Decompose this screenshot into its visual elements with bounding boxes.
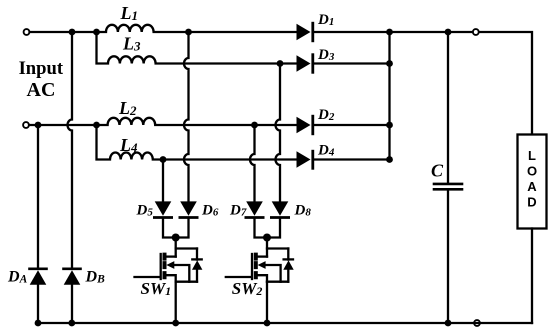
- svg-text:D7: D7: [229, 203, 247, 219]
- svg-text:D8: D8: [294, 203, 312, 219]
- svg-text:L: L: [528, 148, 536, 163]
- wire cap top: [447, 32, 449, 183]
- wire SW1 drain to body diode top: [176, 247, 197, 249]
- SW2 body arrow: [258, 261, 266, 269]
- node cap top: [445, 29, 452, 36]
- SW1 body diode: [196, 249, 198, 260]
- inductor L2: [97, 118, 297, 125]
- diode D6: [180, 201, 197, 217]
- diode D1: [297, 23, 313, 41]
- wire vertical L1 node to D6 with hops over L3,L2,L4 lines: [184, 32, 189, 201]
- SW1 gate lead: [135, 276, 161, 278]
- node rail DB: [68, 320, 75, 327]
- wire SW2 arrow tail: [265, 265, 281, 282]
- diode D3: [297, 55, 313, 73]
- SW1 drain stub: [166, 255, 176, 257]
- cap plate bottom: [434, 188, 462, 191]
- node L1 out: [185, 29, 192, 36]
- wire bottom rail: [38, 322, 532, 324]
- input terminal top: [24, 29, 30, 35]
- node bus row1: [386, 29, 393, 36]
- svg-text:C: C: [431, 161, 444, 181]
- inductor L3: [97, 32, 297, 64]
- SW1 source stub: [166, 275, 176, 282]
- wire SW1 arrow tail: [174, 265, 190, 282]
- SW2 source stub: [257, 275, 267, 282]
- wire D1 cathode to top rail: [314, 32, 532, 135]
- svg-text:L4: L4: [119, 135, 138, 155]
- wire D2 cathode to bus: [314, 124, 390, 126]
- transistor SW2 MOSFET: [226, 238, 294, 324]
- wire vertical L2 node to D7 with hop over L4 line: [250, 125, 255, 201]
- svg-text:D3: D3: [317, 47, 335, 63]
- capacitor C: [434, 32, 462, 323]
- SW2 channel segments: [254, 255, 258, 278]
- node bus row4: [386, 156, 393, 163]
- wire SW1 drain down: [175, 238, 177, 257]
- wire output bus vertical: [388, 32, 390, 160]
- diode D7: [246, 201, 263, 217]
- SW1 gate bar: [160, 254, 162, 279]
- diode D2: [297, 116, 313, 134]
- label LOAD: [527, 148, 537, 210]
- diode DB: [64, 269, 81, 323]
- SW2 drain stub: [257, 255, 267, 257]
- svg-text:D2: D2: [317, 107, 335, 123]
- wire vertical DB branch with hop over bottom input line: [68, 32, 73, 267]
- input terminal bottom: [23, 122, 29, 128]
- svg-text:D1: D1: [317, 12, 334, 28]
- diode DA: [30, 269, 47, 323]
- wire bottom input to L fork: [29, 124, 94, 126]
- svg-text:DA: DA: [7, 269, 28, 286]
- wire SW2 drain down: [266, 238, 268, 257]
- diode D8: [271, 201, 288, 217]
- svg-text:AC: AC: [27, 79, 56, 101]
- svg-text:A: A: [527, 179, 537, 194]
- node L3 out: [277, 60, 284, 67]
- svg-text:SW2: SW2: [232, 279, 263, 298]
- wire vertical DA branch: [37, 125, 39, 267]
- svg-text:L1: L1: [120, 3, 139, 23]
- inductor L1: [97, 25, 297, 32]
- diode D4: [297, 151, 313, 168]
- cap plate top: [434, 183, 462, 186]
- SW2 gate lead: [226, 276, 252, 278]
- output terminal bottom: [474, 320, 480, 326]
- node rail SW1: [172, 320, 179, 327]
- wire load bottom: [531, 229, 533, 324]
- node cap bottom: [445, 320, 452, 327]
- wire cap bottom: [447, 191, 449, 324]
- wire D4 cathode to bus: [314, 158, 390, 160]
- node rail DA: [35, 320, 42, 327]
- inductor L4: [97, 125, 297, 160]
- SW1 channel segments: [163, 255, 167, 278]
- node L4 out: [160, 156, 167, 163]
- load box: [518, 135, 547, 229]
- wire SW2 source to rail: [266, 282, 268, 323]
- wire SW2 drain to body diode top: [267, 247, 288, 249]
- node L2 out: [251, 122, 258, 129]
- node top input junction: [69, 29, 76, 36]
- SW2 gate bar: [251, 254, 253, 279]
- diode D5: [154, 201, 171, 217]
- node bus row3: [386, 122, 393, 129]
- wire vertical L3 node to D8 with hops over L2,L4 lines: [276, 64, 281, 202]
- wire vertical L4 node to D5: [162, 160, 164, 202]
- SW1 body arrow: [166, 261, 174, 269]
- node bottom input junction: [35, 122, 42, 129]
- node SW1 drain: [172, 234, 180, 242]
- svg-text:DB: DB: [85, 269, 106, 286]
- wire top input to L fork: [30, 31, 94, 33]
- node bus row2: [386, 60, 393, 67]
- SW2 body diode: [287, 249, 289, 260]
- wire D3 cathode to bus: [314, 62, 390, 64]
- wire D5/D6 cathodes to SW1 drain bar: [163, 219, 189, 238]
- transistor SW1 MOSFET: [135, 238, 203, 324]
- node rail SW2: [264, 320, 271, 327]
- svg-text:L3: L3: [122, 34, 141, 54]
- svg-text:Input: Input: [19, 58, 64, 79]
- svg-text:D4: D4: [317, 143, 335, 159]
- svg-text:D6: D6: [201, 203, 219, 219]
- svg-text:SW1: SW1: [141, 279, 172, 298]
- svg-text:D: D: [527, 195, 536, 210]
- node L2/L4 fork: [93, 122, 100, 129]
- wire D7/D8 cathodes to SW2 drain bar: [255, 219, 281, 238]
- node SW2 drain: [263, 234, 271, 242]
- output terminal top: [473, 29, 479, 35]
- node L1/L3 fork: [93, 29, 100, 36]
- wire SW1 source to rail: [175, 282, 177, 323]
- wire SW1 source bottom bar: [176, 281, 197, 283]
- svg-text:O: O: [527, 164, 537, 179]
- wire SW2 source bottom bar: [267, 281, 288, 283]
- svg-text:D5: D5: [136, 203, 154, 219]
- svg-text:L2: L2: [118, 98, 137, 118]
